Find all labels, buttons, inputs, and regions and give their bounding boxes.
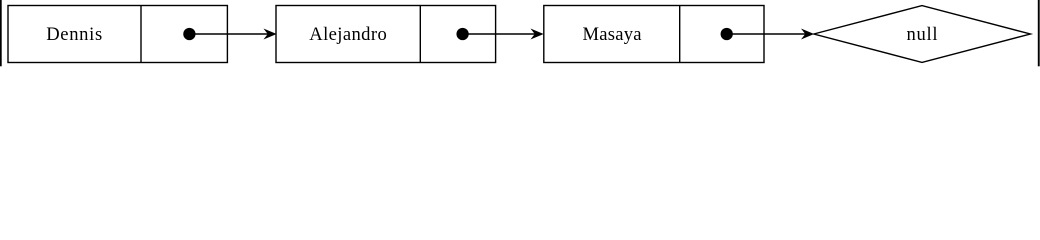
node 1 box	[8, 6, 227, 63]
node 3 divider	[679, 6, 681, 63]
node 3 pointer dot	[721, 28, 733, 40]
frame left bar	[0, 0, 2, 66]
svg-text:Alejandro: Alejandro	[309, 24, 387, 45]
wire: arrow 2 shaft	[463, 33, 536, 35]
node 2 box	[276, 6, 496, 63]
svg-text:null: null	[907, 24, 938, 45]
node 2 pointer dot	[456, 28, 468, 40]
null diamond	[814, 6, 1031, 63]
node 2 divider	[419, 6, 421, 63]
arrow 1 head	[264, 29, 276, 39]
arrow 3 head	[802, 29, 814, 39]
wire: arrow 3 shaft	[727, 33, 806, 35]
frame right bar	[1038, 0, 1040, 66]
svg-text:Masaya: Masaya	[583, 24, 642, 45]
wire: arrow 1 shaft	[190, 33, 269, 35]
node 1 pointer dot	[183, 28, 195, 40]
node 3 box	[544, 6, 764, 63]
svg-text:Dennis: Dennis	[46, 24, 102, 45]
arrow 2 head	[531, 29, 543, 39]
node 1 divider	[140, 6, 142, 63]
